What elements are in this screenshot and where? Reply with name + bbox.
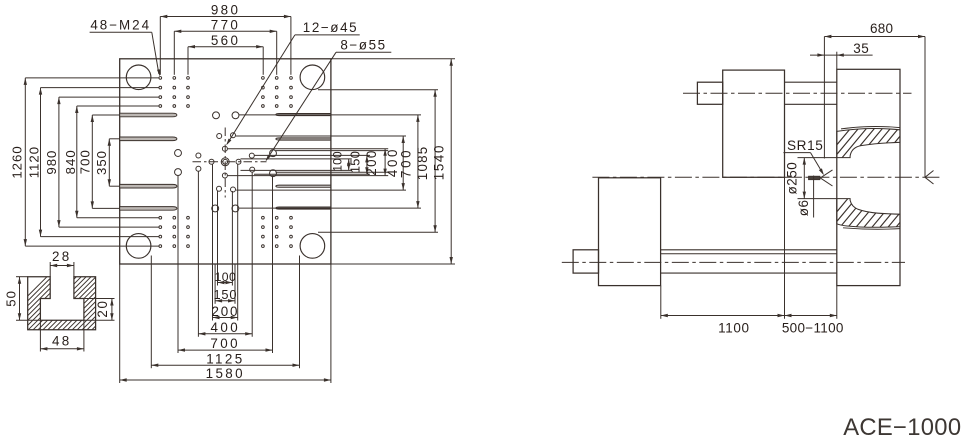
- tie-bar hole: [300, 234, 325, 259]
- dim 200 right: [384, 149, 386, 176]
- svg-text:200: 200: [364, 149, 379, 176]
- dim 200 bottom: [213, 317, 238, 319]
- svg-text:980: 980: [211, 3, 241, 18]
- dim 400 bottom: [198, 333, 252, 335]
- dim 35: [836, 52, 838, 70]
- dim 980 top: [160, 16, 291, 18]
- svg-text:700: 700: [398, 148, 413, 178]
- stationary platen: [837, 69, 900, 285]
- dim 100 right: [348, 159, 350, 171]
- svg-text:980: 980: [44, 150, 59, 175]
- dim 150 bottom: [215, 300, 235, 302]
- center locating ring: [223, 159, 228, 164]
- svg-text:SR15: SR15: [787, 138, 823, 153]
- dim 680 top: [823, 37, 825, 159]
- svg-text:100: 100: [215, 270, 237, 284]
- tie-bar hole: [300, 65, 325, 90]
- dim 770 top: [174, 30, 276, 32]
- extension lines right: [331, 58, 455, 60]
- nozzle tip: [809, 176, 820, 180]
- dim 1120 left: [40, 88, 42, 237]
- dim 150 right: [366, 155, 368, 174]
- T-slots left: [120, 113, 177, 117]
- dim 840 left: [76, 106, 78, 218]
- platen front view outline: [120, 59, 331, 264]
- svg-text:500−1100: 500−1100: [782, 321, 844, 336]
- svg-text:12−ø45: 12−ø45: [303, 20, 358, 35]
- svg-text:560: 560: [211, 33, 241, 48]
- dim 1085 right: [434, 90, 436, 233]
- 8-dia55 holes: [213, 112, 220, 119]
- svg-text:150: 150: [347, 151, 362, 173]
- extension lines left: [25, 77, 159, 79]
- dim 700 bottom: [178, 349, 273, 351]
- svg-text:700: 700: [78, 149, 93, 174]
- dim 1580 bottom: [120, 379, 331, 381]
- dim 350 left: [108, 139, 110, 186]
- svg-text:1100: 1100: [718, 321, 749, 336]
- T-slots right: [276, 114, 331, 116]
- svg-text:8−ø55: 8−ø55: [340, 38, 386, 53]
- svg-text:840: 840: [63, 149, 78, 174]
- svg-text:200: 200: [212, 304, 240, 319]
- tie-bar hole: [126, 234, 151, 259]
- svg-text:700: 700: [210, 336, 240, 351]
- detail dims: [49, 262, 51, 277]
- rod stub lower: [573, 250, 598, 273]
- dim 700 right: [417, 115, 419, 208]
- dim 100 bottom: [218, 282, 233, 284]
- svg-text:48−M24: 48−M24: [90, 18, 151, 33]
- svg-text:400: 400: [211, 320, 241, 335]
- svg-text:48: 48: [52, 334, 72, 349]
- dim 1260 left: [24, 78, 26, 246]
- tie-bar hole: [126, 65, 151, 90]
- barrel lines: [661, 249, 837, 251]
- centerline barrel: [562, 261, 905, 263]
- centerline mold axis: [592, 176, 940, 178]
- svg-text:770: 770: [211, 17, 241, 32]
- extension lines top: [159, 17, 161, 75]
- svg-text:ø250: ø250: [785, 162, 800, 195]
- dia6 label: [813, 176, 815, 218]
- dia250 dim: [798, 157, 837, 159]
- svg-text:1580: 1580: [206, 366, 245, 381]
- svg-text:ø6: ø6: [796, 199, 811, 216]
- tie bar between platens: [785, 81, 837, 83]
- svg-text:680: 680: [870, 21, 893, 36]
- moving platen: [723, 70, 785, 177]
- 12-dia45 holes: [217, 134, 222, 139]
- dim 980 left: [58, 97, 60, 227]
- svg-text:50: 50: [3, 290, 18, 307]
- dim 1540 right: [450, 59, 452, 264]
- dim 560 top: [188, 46, 263, 48]
- svg-text:1120: 1120: [27, 146, 42, 178]
- dim 400 right: [402, 136, 404, 190]
- svg-text:20: 20: [95, 299, 110, 317]
- dims 1100 / 500-1100: [660, 286, 662, 319]
- svg-text:35: 35: [853, 41, 869, 56]
- svg-text:1540: 1540: [431, 144, 446, 180]
- svg-text:ACE−1000: ACE−1000: [843, 414, 961, 441]
- center crosshair: [193, 161, 267, 163]
- clamp housing block lower: [599, 178, 661, 286]
- svg-text:1125: 1125: [206, 351, 244, 366]
- cylinder stub upper: [697, 82, 722, 104]
- 48-M24 bolt hole grid: [159, 77, 162, 80]
- ejector slots verticals: [212, 164, 214, 321]
- centerline tie bar: [683, 92, 912, 94]
- svg-text:1085: 1085: [415, 146, 430, 181]
- mold lower outer double line: [843, 228, 900, 229]
- svg-text:150: 150: [214, 287, 238, 302]
- mold upper outer double line: [841, 126, 900, 128]
- dim 700 left: [91, 115, 93, 208]
- svg-text:350: 350: [94, 150, 109, 175]
- svg-text:28: 28: [52, 249, 72, 264]
- svg-text:1260: 1260: [9, 145, 24, 178]
- svg-text:100: 100: [331, 151, 345, 172]
- dim 1125 bottom: [151, 364, 299, 366]
